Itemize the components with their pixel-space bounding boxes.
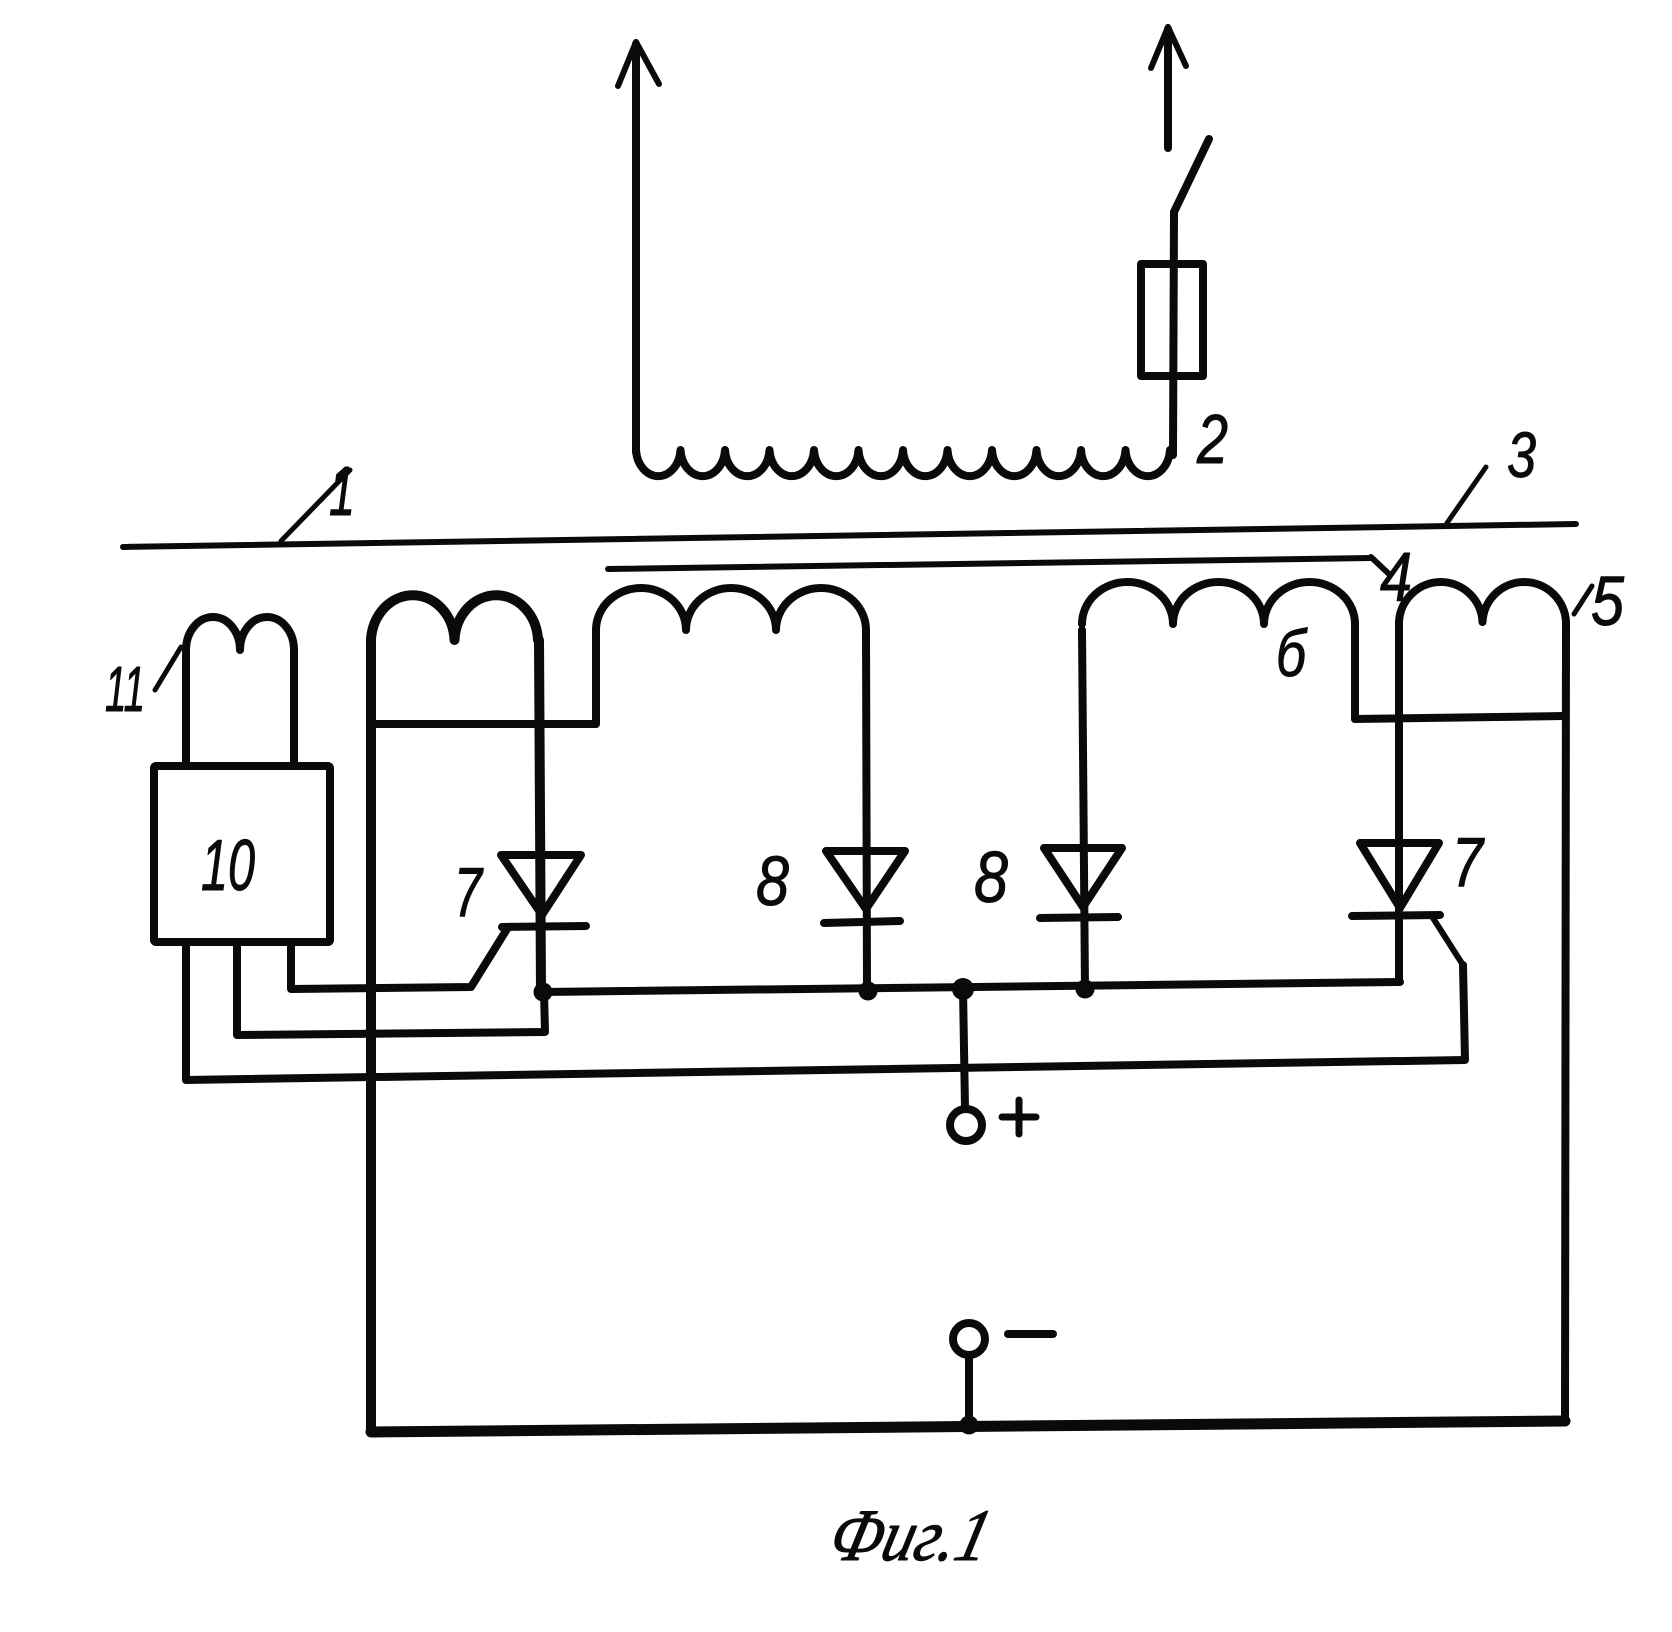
junction node diode 8b: [1076, 980, 1095, 999]
svg-text:7: 7: [454, 853, 484, 931]
winding 6 right leg: [1351, 624, 1359, 719]
thyristor 7 left anode wire: [539, 640, 541, 992]
minus sign: [1008, 1330, 1053, 1338]
svg-text:11: 11: [105, 653, 145, 725]
diode 8a cathode bar: [824, 921, 900, 923]
wire switch to winding: [1173, 212, 1174, 455]
thyristor 7 right anode wire (winding 5 left leg): [1395, 622, 1403, 981]
winding 11: [186, 617, 294, 766]
svg-text:5: 5: [1591, 562, 1625, 640]
svg-text:8: 8: [756, 842, 789, 920]
phase output arrow right: [1151, 27, 1186, 148]
diode 8a anode wire: [866, 630, 867, 991]
svg-text:7: 7: [1452, 823, 1485, 901]
leader for label 5: [1574, 586, 1592, 614]
diode 8b triangle: [1044, 848, 1122, 907]
winding (middle-left secondary) arcs: [596, 588, 866, 630]
connector winding 6 to winding 5: [1355, 716, 1565, 719]
hook at end of line 4: [1371, 557, 1389, 574]
leader for label 11: [155, 647, 181, 690]
winding 5 right leg wire to bottom bus: [1565, 622, 1566, 1422]
gate wire from box 10 to thyristor 7 left cathode: [237, 942, 545, 1035]
junction node diode 8a: [859, 982, 878, 1001]
leader for label 3: [1447, 467, 1486, 523]
diode 8b anode wire: [1082, 630, 1085, 989]
svg-text:3: 3: [1507, 419, 1536, 491]
junction node thyristor 7 left: [534, 983, 553, 1002]
phase output arrow left: [618, 42, 659, 452]
plus terminal wire: [963, 989, 965, 1108]
plus sign: [1002, 1100, 1036, 1134]
thyristor 7 right triangle: [1360, 843, 1439, 908]
bottom bus: [371, 1421, 1565, 1432]
svg-text:Фиг.1: Фиг.1: [822, 1495, 1000, 1577]
winding W left leg wire to bottom bus: [366, 640, 376, 1432]
thyristor 7 right gate slant: [1433, 918, 1463, 965]
core line 4: [608, 558, 1371, 569]
core line 1-3: [123, 524, 1576, 547]
gate wire from box 10 to thyristor 7 right: [186, 942, 1465, 1080]
minus terminal circle: [953, 1323, 985, 1355]
svg-text:2: 2: [1196, 400, 1228, 478]
plus terminal circle: [950, 1109, 982, 1141]
svg-text:8: 8: [974, 838, 1008, 918]
junction node plus tap: [952, 978, 974, 1000]
diode 8b cathode bar: [1040, 917, 1118, 918]
thyristor 7 left triangle: [501, 855, 581, 915]
junction node minus tap: [960, 1416, 979, 1435]
control unit box 10: [154, 766, 330, 942]
winding (left secondary) arcs: [371, 595, 538, 640]
primary winding 2: [636, 450, 1170, 476]
winding 5 arcs: [1399, 582, 1566, 622]
leader for label 1: [281, 470, 350, 541]
switch blade: [1174, 139, 1209, 212]
svg-text:1: 1: [329, 452, 355, 530]
cathode bus: [543, 982, 1400, 992]
diode 8a triangle: [826, 851, 905, 909]
connector wire to winding 3: [371, 630, 596, 724]
svg-text:б: б: [1276, 616, 1308, 690]
fuse: [1141, 264, 1203, 376]
svg-text:10: 10: [201, 826, 255, 906]
thyristor 7 left cathode bar: [502, 926, 586, 927]
thyristor 7 right cathode bar: [1352, 915, 1440, 916]
gate wire from box 10 to thyristor 7 left gate: [291, 929, 507, 989]
minus terminal wire: [965, 1356, 973, 1426]
winding 6 arcs: [1082, 582, 1355, 624]
